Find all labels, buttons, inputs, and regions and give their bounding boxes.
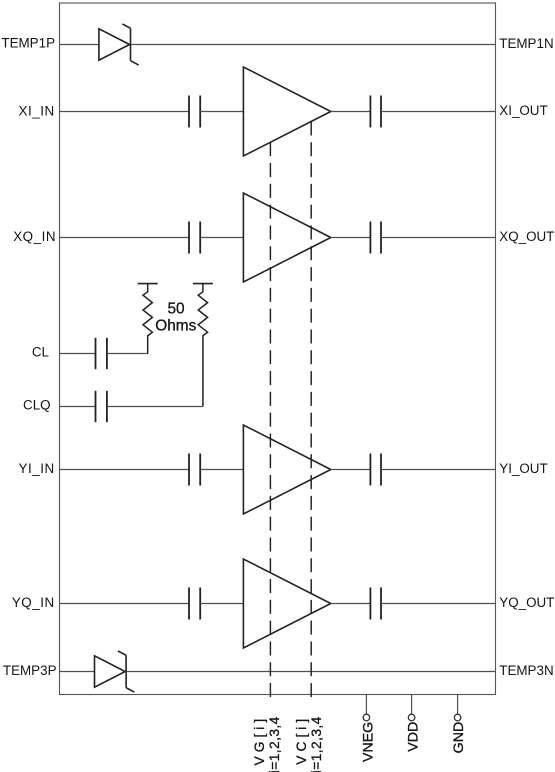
svg-text:XI_IN: XI_IN: [19, 104, 55, 119]
svg-text:GND: GND: [451, 722, 467, 754]
svg-text:Ohms: Ohms: [155, 318, 196, 335]
svg-text:TEMP1P: TEMP1P: [1, 35, 55, 50]
svg-text:i=1,2,3,4: i=1,2,3,4: [267, 716, 282, 772]
svg-text:CLQ: CLQ: [23, 398, 51, 413]
svg-text:VC[i]: VC[i]: [294, 715, 309, 765]
svg-text:XQ_OUT: XQ_OUT: [499, 229, 554, 244]
svg-text:TEMP1N: TEMP1N: [499, 36, 553, 51]
svg-text:TEMP3P: TEMP3P: [3, 663, 57, 678]
svg-text:VDD: VDD: [405, 722, 421, 752]
svg-text:CL: CL: [32, 345, 49, 360]
svg-text:i=1,2,3,4: i=1,2,3,4: [309, 716, 324, 772]
svg-text:YI_OUT: YI_OUT: [499, 461, 547, 476]
svg-text:50: 50: [167, 301, 184, 318]
svg-text:VNEG: VNEG: [361, 722, 377, 762]
svg-text:XI_OUT: XI_OUT: [499, 103, 547, 118]
svg-text:YQ_OUT: YQ_OUT: [499, 595, 554, 610]
svg-text:TEMP3N: TEMP3N: [499, 663, 553, 678]
svg-text:YQ_IN: YQ_IN: [12, 595, 55, 610]
svg-text:XQ_IN: XQ_IN: [13, 229, 56, 244]
svg-text:VG[i]: VG[i]: [252, 715, 267, 766]
svg-text:YI_IN: YI_IN: [19, 461, 55, 476]
